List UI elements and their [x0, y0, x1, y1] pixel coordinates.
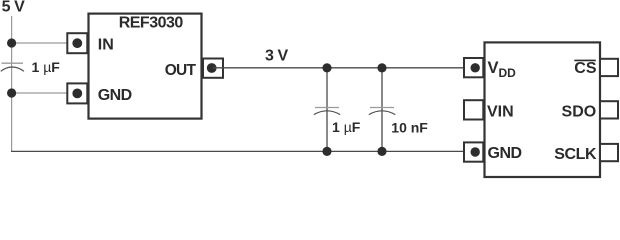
svg-text:SCLK: SCLK — [554, 146, 597, 163]
svg-text:GND: GND — [98, 87, 132, 104]
svg-text:GND: GND — [488, 145, 522, 162]
wire ground rail bottom — [11, 150, 474, 152]
wire vertical left rail — [11, 16, 13, 151]
svg-text:OUT: OUT — [165, 62, 197, 79]
junction dot C3 bottom — [377, 147, 386, 156]
pin OUT of U1 — [203, 59, 223, 78]
op-amp U1 REF3030 box — [89, 14, 202, 119]
pin SDO of U2 — [600, 101, 618, 118]
svg-text:1 µF: 1 µF — [32, 59, 61, 75]
capacitor C1 plates — [1, 63, 24, 71]
pin GND of U1 — [67, 83, 87, 103]
junction dot top of C1 — [7, 38, 16, 47]
pin CS of U2 — [600, 59, 618, 76]
capacitor C2 plates — [314, 108, 340, 115]
junction dot C3 top — [377, 63, 386, 72]
pin VIN of U2 — [464, 100, 483, 119]
svg-text:IN: IN — [98, 36, 114, 53]
svg-text:3 V: 3 V — [265, 48, 289, 65]
op-amp U2 DAC box — [485, 42, 601, 177]
svg-text:CS: CS — [574, 60, 597, 77]
junction dot C2 bottom — [322, 147, 331, 156]
svg-text:SDO: SDO — [562, 104, 597, 121]
wire IN from rail to pin — [12, 42, 77, 44]
capacitor C3 plates — [369, 108, 395, 115]
junction dot C2 top — [322, 63, 331, 72]
pin SCLK of U2 — [600, 144, 618, 161]
pin label CS with overline — [574, 60, 597, 77]
pin IN of U1 — [67, 33, 87, 53]
wire 3V rail OUT to VDD — [213, 67, 474, 69]
wire GND from rail to pin — [12, 92, 77, 94]
svg-text:1 µF: 1 µF — [332, 119, 361, 135]
svg-text:5 V: 5 V — [2, 0, 26, 15]
pin VDD of U2 — [464, 58, 483, 77]
wire branch C2 — [326, 68, 328, 151]
svg-text:VIN: VIN — [487, 103, 514, 120]
wire branch C3 — [381, 68, 383, 151]
svg-text:REF3030: REF3030 — [119, 15, 184, 32]
junction dot bottom of C1 — [7, 88, 16, 97]
svg-text:10 nF: 10 nF — [391, 119, 428, 135]
pin GND of U2 — [464, 142, 483, 161]
